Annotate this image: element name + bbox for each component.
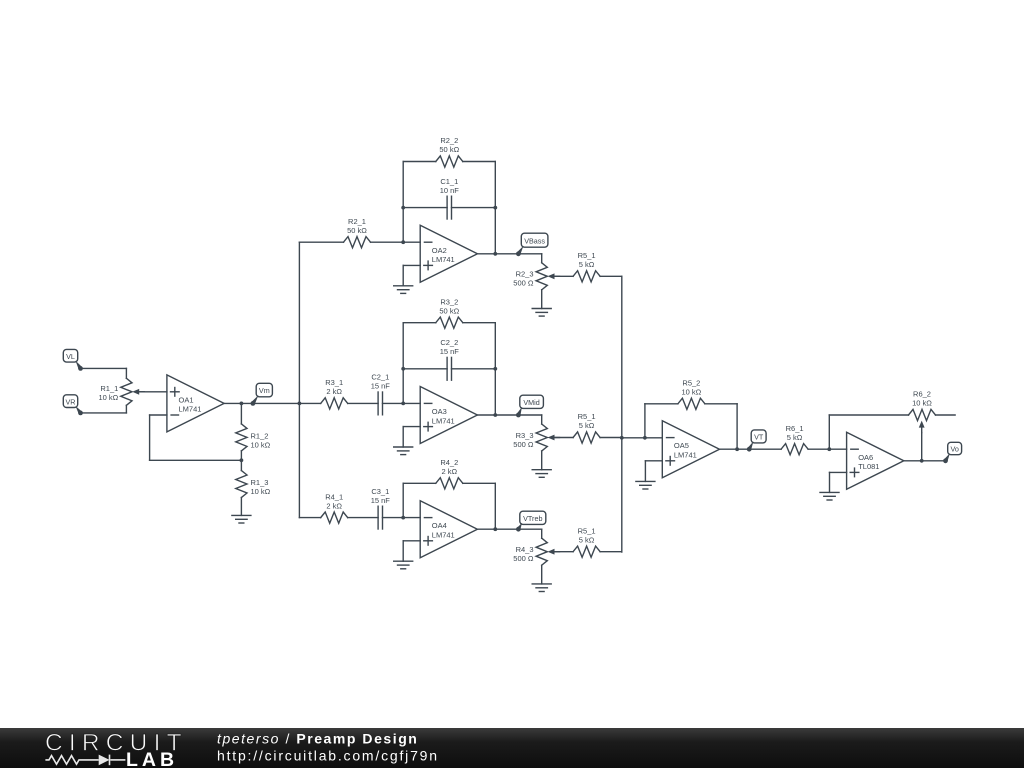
svg-text:VMid: VMid bbox=[523, 398, 539, 407]
svg-text:OA3: OA3 bbox=[432, 407, 447, 416]
svg-text:5 kΩ: 5 kΩ bbox=[579, 535, 595, 544]
svg-text:R2_2: R2_2 bbox=[440, 136, 458, 145]
svg-text:R4_3: R4_3 bbox=[516, 545, 534, 554]
svg-text:OA2: OA2 bbox=[432, 246, 447, 255]
svg-text:VT: VT bbox=[754, 433, 764, 442]
svg-text:Vo: Vo bbox=[950, 445, 958, 454]
svg-text:5 kΩ: 5 kΩ bbox=[787, 433, 803, 442]
svg-text:500 Ω: 500 Ω bbox=[513, 440, 534, 449]
svg-text:R1_3: R1_3 bbox=[251, 478, 269, 487]
svg-text:2 kΩ: 2 kΩ bbox=[326, 501, 342, 510]
svg-text:R3_2: R3_2 bbox=[440, 297, 458, 306]
svg-text:LM741: LM741 bbox=[432, 531, 455, 540]
svg-text:R4_2: R4_2 bbox=[440, 458, 458, 467]
svg-text:15 nF: 15 nF bbox=[371, 496, 391, 505]
svg-text:LM741: LM741 bbox=[674, 451, 697, 460]
svg-text:R6_2: R6_2 bbox=[913, 390, 931, 399]
svg-text:LM741: LM741 bbox=[179, 405, 202, 414]
svg-text:VTreb: VTreb bbox=[523, 514, 542, 523]
svg-text:2 kΩ: 2 kΩ bbox=[326, 387, 342, 396]
svg-text:5 kΩ: 5 kΩ bbox=[579, 260, 595, 269]
svg-text:10 kΩ: 10 kΩ bbox=[251, 487, 271, 496]
svg-text:15 nF: 15 nF bbox=[371, 382, 391, 391]
svg-text:500 Ω: 500 Ω bbox=[513, 279, 534, 288]
svg-text:TL081: TL081 bbox=[858, 462, 879, 471]
svg-text:C2_1: C2_1 bbox=[371, 373, 389, 382]
svg-text:R3_1: R3_1 bbox=[325, 378, 343, 387]
svg-text:VBass: VBass bbox=[524, 236, 545, 245]
svg-text:OA1: OA1 bbox=[179, 395, 194, 404]
svg-text:500 Ω: 500 Ω bbox=[513, 554, 534, 563]
svg-text:R1_2: R1_2 bbox=[251, 432, 269, 441]
svg-text:http://circuitlab.com/cgfj79n: http://circuitlab.com/cgfj79n bbox=[217, 748, 439, 764]
svg-text:R5_1: R5_1 bbox=[578, 412, 596, 421]
svg-text:C2_2: C2_2 bbox=[440, 338, 458, 347]
svg-text:R2_1: R2_1 bbox=[348, 217, 366, 226]
svg-text:15 nF: 15 nF bbox=[440, 347, 460, 356]
svg-text:R2_3: R2_3 bbox=[516, 270, 534, 279]
svg-text:LM741: LM741 bbox=[432, 416, 455, 425]
svg-text:50 kΩ: 50 kΩ bbox=[439, 306, 459, 315]
svg-text:R5_1: R5_1 bbox=[578, 526, 596, 535]
svg-text:R4_1: R4_1 bbox=[325, 492, 343, 501]
svg-text:R6_1: R6_1 bbox=[786, 424, 804, 433]
svg-text:C1_1: C1_1 bbox=[440, 177, 458, 186]
svg-text:2 kΩ: 2 kΩ bbox=[441, 467, 457, 476]
svg-text:tpeterso / Preamp Design: tpeterso / Preamp Design bbox=[217, 731, 418, 747]
svg-text:LAB: LAB bbox=[126, 749, 178, 768]
svg-text:5 kΩ: 5 kΩ bbox=[579, 421, 595, 430]
svg-text:R5_1: R5_1 bbox=[578, 251, 596, 260]
svg-text:OA5: OA5 bbox=[674, 441, 689, 450]
svg-text:VR: VR bbox=[66, 397, 76, 406]
svg-text:OA6: OA6 bbox=[858, 453, 873, 462]
svg-text:50 kΩ: 50 kΩ bbox=[347, 226, 367, 235]
svg-text:10 nF: 10 nF bbox=[440, 186, 460, 195]
svg-text:R5_2: R5_2 bbox=[682, 379, 700, 388]
svg-text:OA4: OA4 bbox=[432, 521, 447, 530]
svg-text:Vm: Vm bbox=[259, 386, 270, 395]
svg-text:C3_1: C3_1 bbox=[371, 487, 389, 496]
svg-text:50 kΩ: 50 kΩ bbox=[439, 145, 459, 154]
svg-text:10 kΩ: 10 kΩ bbox=[99, 393, 119, 402]
svg-text:R3_3: R3_3 bbox=[516, 431, 534, 440]
svg-text:VL: VL bbox=[66, 352, 75, 361]
svg-text:10 kΩ: 10 kΩ bbox=[912, 399, 932, 408]
svg-text:10 kΩ: 10 kΩ bbox=[251, 441, 271, 450]
svg-text:R1_1: R1_1 bbox=[100, 384, 118, 393]
svg-text:LM741: LM741 bbox=[432, 255, 455, 264]
svg-text:10 kΩ: 10 kΩ bbox=[682, 388, 702, 397]
